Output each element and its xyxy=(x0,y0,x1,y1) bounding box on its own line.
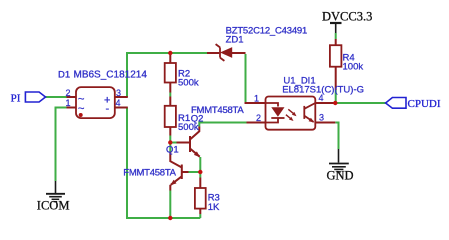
svg-text:DVCC3.3: DVCC3.3 xyxy=(322,9,372,23)
svg-text:MB6S_C181214: MB6S_C181214 xyxy=(74,69,148,80)
svg-text:3: 3 xyxy=(319,113,324,123)
svg-text:FMMT458TA: FMMT458TA xyxy=(191,105,244,116)
svg-text:4: 4 xyxy=(319,93,324,103)
svg-text:ICOM: ICOM xyxy=(37,199,70,213)
svg-text:2: 2 xyxy=(256,113,261,123)
svg-text:1: 1 xyxy=(254,93,259,103)
svg-text:500k: 500k xyxy=(178,78,199,89)
svg-text:D1: D1 xyxy=(58,69,70,80)
svg-text:PI: PI xyxy=(11,93,21,105)
svg-text:FMMT458TA: FMMT458TA xyxy=(123,167,176,178)
svg-text:GND: GND xyxy=(327,169,354,183)
svg-text:3: 3 xyxy=(116,88,121,98)
svg-text:2: 2 xyxy=(66,88,71,98)
svg-text:1K: 1K xyxy=(208,202,220,213)
svg-text:ZD1: ZD1 xyxy=(226,34,244,45)
svg-text:~: ~ xyxy=(78,103,84,115)
svg-text:Q1: Q1 xyxy=(166,145,179,156)
svg-text:1: 1 xyxy=(66,98,71,108)
svg-text:4: 4 xyxy=(116,98,121,108)
svg-text:CPUDI: CPUDI xyxy=(408,98,441,110)
svg-text:100k: 100k xyxy=(343,61,364,72)
svg-text:-: - xyxy=(106,103,110,115)
